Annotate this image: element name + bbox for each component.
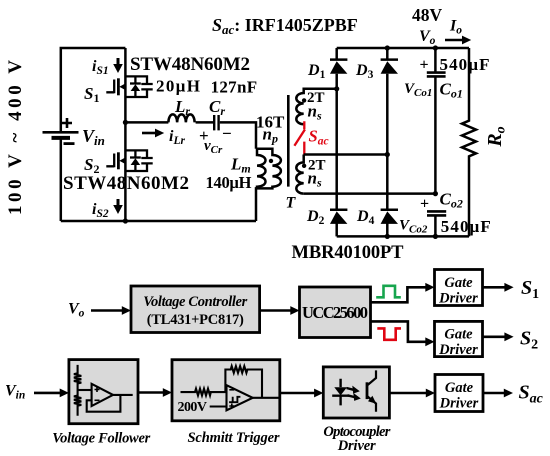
- svg-text:STW48N60M2: STW48N60M2: [63, 173, 189, 194]
- wire bottom rail secondary: [337, 235, 469, 238]
- block UCC25600: [300, 287, 371, 338]
- wire Vin arrow: [34, 392, 61, 395]
- diode D1: [330, 60, 347, 74]
- svg-text:Vo: Vo: [68, 301, 85, 320]
- block gate driver 2: [435, 321, 483, 358]
- wire GD2 to S2: [483, 335, 506, 338]
- node cap midpoint: [433, 191, 438, 196]
- svg-text:540µF: 540µF: [441, 217, 491, 236]
- label iLr with arrow: [142, 128, 185, 147]
- svg-text:Gate: Gate: [445, 380, 474, 396]
- wire GD3 to Sac: [483, 392, 504, 395]
- wire Schmitt to Opto arrow: [280, 392, 315, 395]
- transformer primary np: [256, 149, 281, 221]
- svg-text:D3: D3: [355, 62, 374, 81]
- svg-text:100 V ~ 400 V: 100 V ~ 400 V: [5, 60, 26, 215]
- wire Lr to Cr: [196, 121, 213, 124]
- wire Vo arrow: [91, 309, 123, 312]
- block schmitt trigger: [172, 360, 280, 421]
- svg-text:Schmitt Trigger: Schmitt Trigger: [188, 430, 280, 446]
- label iS1 with down arrow: [92, 58, 123, 77]
- wire GD1 to S1: [483, 286, 506, 289]
- label +vCr-: [199, 124, 232, 156]
- transistor S2 (MOSFET with body diode and capacitor): [106, 150, 152, 171]
- wire midpoint to Lr: [125, 121, 168, 124]
- wire VF to Schmitt arrow: [138, 391, 164, 394]
- svg-text:Sac: Sac: [519, 382, 544, 407]
- svg-text:Lr: Lr: [174, 97, 190, 118]
- svg-text:Cr: Cr: [209, 97, 225, 118]
- switch Sac (red): [294, 121, 305, 154]
- svg-text:Driver: Driver: [439, 396, 479, 412]
- svg-text:140µH: 140µH: [206, 173, 252, 192]
- label Io with arrow: [445, 18, 471, 45]
- svg-text:Io: Io: [449, 18, 462, 37]
- wire rectifier leg1: [335, 48, 338, 236]
- resistor Ro: [462, 48, 476, 236]
- inductor Lr: [168, 114, 194, 122]
- svg-text:iS2: iS2: [92, 201, 109, 220]
- wire UCC to gate driver 1: [371, 287, 427, 302]
- wire left rail bottom: [60, 139, 63, 221]
- svg-text:Driver: Driver: [337, 438, 376, 454]
- block gate driver 3: [435, 375, 483, 412]
- transistor S1 (MOSFET with body diode and capacitor): [106, 76, 152, 97]
- wire Opto to GD3 arrow: [389, 392, 426, 395]
- svg-text:Vin: Vin: [82, 126, 105, 148]
- svg-text:127nF: 127nF: [211, 78, 258, 97]
- svg-text:Vin: Vin: [5, 383, 25, 402]
- node leg2 bottom: [385, 234, 390, 239]
- svg-text:Vo: Vo: [419, 28, 436, 47]
- svg-text:iS1: iS1: [92, 58, 109, 77]
- wire half-bridge bus: [124, 48, 127, 221]
- svg-text:20µH: 20µH: [156, 77, 200, 96]
- svg-text:Co2: Co2: [440, 190, 463, 211]
- block gate driver 1: [435, 270, 483, 307]
- svg-text:D4: D4: [356, 208, 375, 227]
- diode D4: [381, 210, 398, 224]
- svg-text:200V: 200V: [178, 400, 208, 415]
- svg-text:48V: 48V: [412, 5, 443, 25]
- svg-text:D1: D1: [307, 62, 326, 81]
- wire Cr to primary: [220, 122, 256, 148]
- diode D3: [381, 60, 398, 74]
- node half-bridge midpoint: [123, 120, 128, 125]
- svg-text:VCo1: VCo1: [404, 81, 432, 99]
- svg-text:STW48N60M2: STW48N60M2: [130, 54, 250, 75]
- svg-text:−: −: [222, 124, 232, 143]
- label iS2 with down arrow: [92, 199, 123, 220]
- svg-text:Sac: IRF1405ZPBF: Sac: IRF1405ZPBF: [212, 15, 358, 37]
- wire node B to leg2: [304, 153, 388, 156]
- svg-text:Gate: Gate: [444, 275, 473, 291]
- svg-text:T: T: [286, 195, 297, 212]
- block Voltage Controller: [131, 286, 260, 333]
- transformer core: [287, 95, 290, 187]
- svg-text:Voltage Controller: Voltage Controller: [143, 294, 247, 310]
- inductor Lm: [257, 149, 266, 189]
- block voltage follower: [69, 360, 138, 424]
- svg-text:vCr: vCr: [204, 138, 223, 156]
- svg-text:540µF: 540µF: [440, 55, 490, 74]
- wire VC to UCC arrow: [260, 309, 292, 312]
- svg-text:S1: S1: [84, 84, 99, 105]
- wire top rail: [337, 47, 469, 50]
- node cap bottom: [433, 234, 438, 239]
- wire UCC to gate driver 2: [371, 321, 427, 341]
- svg-text:VCo2: VCo2: [399, 218, 428, 236]
- wire winding2 bottom to capacitor midpoint: [304, 192, 436, 195]
- svg-text:Voltage Follower: Voltage Follower: [52, 431, 150, 447]
- svg-text:S1: S1: [521, 277, 539, 302]
- node leg2 top: [385, 45, 390, 50]
- svg-text:Gate: Gate: [444, 327, 473, 343]
- svg-text:+: +: [420, 196, 429, 213]
- svg-text:MBR40100PT: MBR40100PT: [292, 243, 405, 263]
- svg-text:D2: D2: [306, 208, 325, 227]
- waveform red pulse: [377, 328, 401, 339]
- node B: [385, 152, 390, 157]
- svg-text:Co1: Co1: [440, 80, 463, 101]
- block optocoupler driver: [323, 367, 389, 418]
- transformer secondary winding 1 (2T ns): [296, 89, 336, 124]
- svg-text:Driver: Driver: [438, 342, 478, 358]
- node A: [334, 86, 339, 91]
- node bus bottom: [123, 218, 128, 223]
- capacitor Co2: [420, 196, 446, 237]
- capacitor Cr: [214, 115, 218, 130]
- svg-text:Driver: Driver: [438, 291, 478, 307]
- svg-text:iLr: iLr: [169, 128, 185, 147]
- svg-text:Sac: Sac: [309, 127, 329, 148]
- waveform green pulse: [376, 286, 401, 298]
- diode D2: [330, 210, 347, 224]
- transformer secondary winding 2 (2T ns): [296, 155, 306, 194]
- wire bottom rail primary: [61, 220, 256, 223]
- svg-text:S2: S2: [520, 328, 538, 353]
- wire rectifier leg2: [386, 48, 389, 236]
- node Vo tap: [433, 45, 438, 50]
- svg-text:Ro: Ro: [484, 126, 509, 147]
- capacitor Co1: [420, 48, 446, 194]
- svg-text:(TL431+PC817): (TL431+PC817): [147, 312, 244, 328]
- svg-text:+: +: [420, 57, 429, 74]
- battery Vin: [43, 118, 79, 144]
- svg-text:UCC25600: UCC25600: [302, 303, 368, 322]
- wire left rail top: [61, 48, 126, 132]
